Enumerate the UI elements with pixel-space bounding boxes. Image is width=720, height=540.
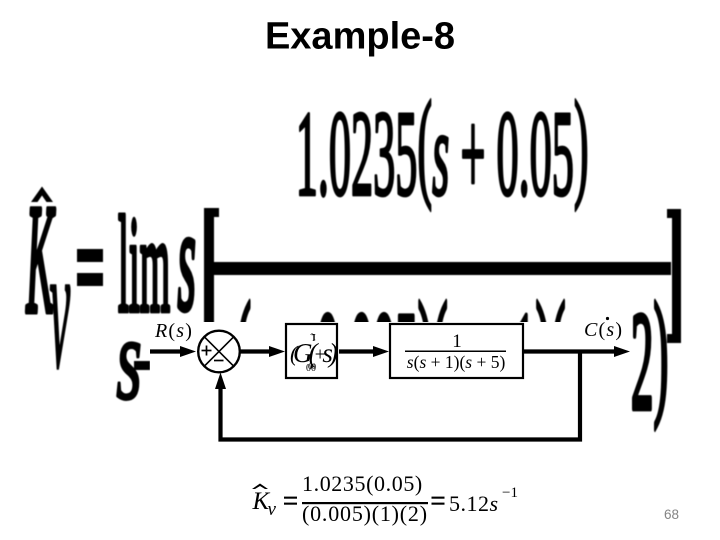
svg-text:(0.005)(1)(2): (0.005)(1)(2)	[302, 501, 428, 526]
svg-text:Example-8: Example-8	[265, 16, 455, 58]
svg-text:1.0235(s + 0.05): 1.0235(s + 0.05)	[296, 75, 589, 221]
svg-text:00: 00	[308, 362, 316, 371]
svg-text:s: s	[178, 178, 196, 341]
svg-text:1.0235(0.05): 1.0235(0.05)	[302, 471, 423, 496]
svg-text:5.12s: 5.12s	[449, 491, 499, 516]
svg-text:v: v	[268, 499, 277, 520]
svg-text:68: 68	[664, 507, 679, 522]
svg-text:−1: −1	[502, 485, 518, 501]
svg-text:1: 1	[452, 331, 462, 352]
svg-text:v: v	[49, 210, 70, 405]
svg-text:R(s): R(s)	[154, 320, 193, 342]
svg-text:C(s): C(s)	[584, 319, 623, 341]
svg-text:s(s + 1)(s + 5): s(s + 1)(s + 5)	[407, 352, 506, 372]
svg-text:s: s	[116, 294, 142, 425]
